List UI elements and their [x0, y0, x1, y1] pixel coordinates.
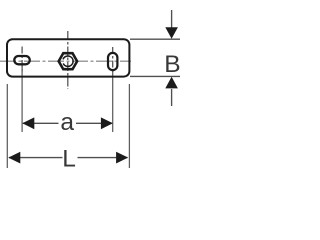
extension line L left [6, 84, 8, 168]
extension line a right (below slot B) [112, 71, 114, 132]
leader line B top [171, 10, 173, 28]
arrowhead B top [165, 27, 178, 39]
centerline slot B vertical [112, 47, 114, 74]
centerline slot A vertical [21, 47, 23, 73]
dimension line L (right segment) [78, 157, 128, 159]
extension line a left (below slot A) [21, 66, 23, 132]
leader line B bottom [171, 89, 173, 106]
hex nut U1 [59, 53, 78, 69]
arrowhead a right [101, 117, 113, 129]
extension line B top (plate top edge extended right) [130, 38, 180, 40]
centerline horizontal (through slots and nut) [0, 60, 131, 62]
svg-text:L: L [62, 146, 76, 173]
arrowhead L left [8, 152, 20, 164]
arrowhead B bottom [165, 77, 178, 89]
arrowhead L right [116, 152, 128, 164]
nut thread circle [63, 56, 73, 66]
extension line B bottom (plate bottom edge extended right) [130, 75, 180, 77]
extension line L right [128, 84, 130, 168]
dimension text B [164, 51, 180, 78]
dimension line a (left segment) [23, 122, 59, 124]
dimension text L [62, 146, 76, 173]
slot B (vertical oblong hole) [108, 53, 117, 70]
dimension text a [60, 109, 74, 136]
centerline nut vertical [67, 31, 69, 89]
dimension line a (right segment) [76, 122, 112, 124]
svg-text:B: B [164, 51, 180, 78]
svg-text:a: a [60, 109, 74, 136]
arrowhead a left [22, 117, 34, 129]
plate outline [7, 39, 129, 76]
slot A (horizontal oblong hole) [14, 56, 29, 64]
dimension line L (left segment) [9, 157, 63, 159]
